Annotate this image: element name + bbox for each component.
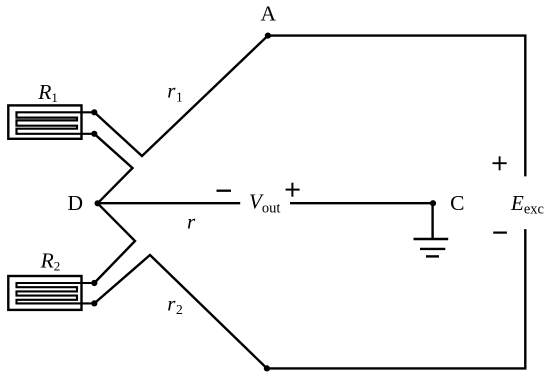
svg-text:D: D <box>68 191 84 215</box>
svg-text:r: r <box>187 210 196 234</box>
svg-text:A: A <box>261 1 277 25</box>
svg-text:C: C <box>450 191 464 215</box>
